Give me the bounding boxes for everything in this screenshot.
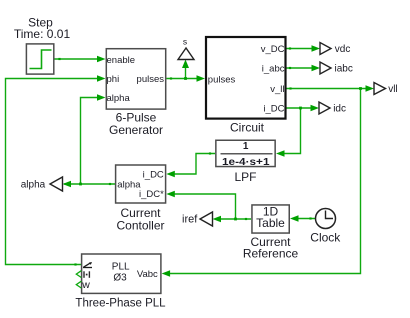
wire i_DC branch down to LPF input bbox=[283, 108, 301, 154]
outport tag iabc triangle bbox=[320, 62, 331, 74]
svg-text:v_ll: v_ll bbox=[270, 84, 284, 95]
waypoint dot on pulses wire bbox=[170, 77, 172, 79]
svg-text:s: s bbox=[183, 36, 187, 46]
arrowhead into goto tag s bbox=[182, 60, 189, 69]
svg-text:1: 1 bbox=[243, 141, 249, 152]
wire pulses to Circuit bbox=[167, 78, 199, 80]
svg-text:pulses: pulses bbox=[208, 74, 236, 85]
block Step bbox=[26, 44, 53, 74]
waypoint dot on controller alpha wire bbox=[109, 183, 111, 185]
waypoint dot on LPF output wire bbox=[209, 152, 211, 154]
svg-text:alpha: alpha bbox=[21, 180, 46, 191]
junction node alpha bbox=[79, 183, 82, 186]
wire v_ll to vll outport bbox=[287, 88, 368, 90]
svg-text:enable: enable bbox=[107, 55, 136, 66]
svg-text:Table: Table bbox=[256, 216, 285, 230]
svg-text:Three-Phase PLL: Three-Phase PLL bbox=[75, 297, 166, 309]
waypoint dot on iref wire bbox=[245, 218, 247, 220]
arrowhead into alpha input bbox=[97, 94, 106, 100]
svg-text:alpha: alpha bbox=[117, 179, 141, 190]
svg-text:iref: iref bbox=[182, 214, 198, 226]
svg-text:Generator: Generator bbox=[109, 123, 163, 137]
waypoint dot on clock wire bbox=[309, 217, 311, 219]
waypoint dot on enable wire bbox=[58, 58, 60, 60]
svg-text:v_DC: v_DC bbox=[261, 44, 285, 55]
arrowhead into 1D Table input bbox=[290, 215, 299, 221]
outport tag iref triangle bbox=[200, 212, 213, 226]
svg-text:Vabc: Vabc bbox=[137, 269, 158, 280]
svg-text:i_DC: i_DC bbox=[143, 169, 164, 180]
step waveform symbol bbox=[30, 50, 52, 69]
wire i_DC to idc outport bbox=[287, 107, 313, 109]
arrowhead into iref tag bbox=[213, 216, 222, 222]
svg-text:iabc: iabc bbox=[335, 64, 353, 75]
open output chevron port 2 bbox=[76, 271, 81, 278]
wire branch up to goto tag s bbox=[185, 64, 187, 79]
wire Clock to 1D Table bbox=[297, 218, 316, 220]
svg-text:Time: 0.01: Time: 0.01 bbox=[14, 27, 71, 41]
junction node iref bbox=[234, 218, 237, 221]
svg-text:i_abc: i_abc bbox=[262, 63, 285, 74]
wire branch up to controller i_DC* input bbox=[173, 194, 236, 219]
block 1D Table bbox=[252, 205, 289, 233]
block Current Contoller bbox=[116, 165, 166, 203]
wire alpha net horizontal bbox=[64, 183, 115, 185]
magnitude output symbol |.| bbox=[83, 271, 85, 278]
outport tag vll triangle bbox=[374, 83, 386, 95]
wire v_ll branch down and left to PLL Vabc bbox=[169, 89, 361, 274]
svg-text:Ø3: Ø3 bbox=[113, 272, 127, 283]
arrowhead into LPF input bbox=[276, 150, 285, 156]
arrowhead into idc outport bbox=[311, 105, 320, 111]
goto tag s triangle bbox=[178, 48, 194, 60]
arrowhead into i_DC input bbox=[166, 171, 175, 177]
waypoint dot on iabc wire bbox=[289, 67, 291, 69]
arrowhead into vll outport bbox=[366, 85, 375, 91]
arrowhead into enable input bbox=[97, 56, 106, 62]
wire i_abc to iabc outport bbox=[287, 67, 314, 69]
arrowhead into iabc outport bbox=[312, 65, 321, 71]
arrowhead into vdc outport bbox=[312, 45, 321, 51]
outport tag vdc triangle bbox=[320, 43, 331, 55]
arrowhead pulses into Circuit bbox=[197, 75, 206, 81]
wire Step to enable bbox=[55, 58, 99, 60]
waypoint dot on PLL output wire bbox=[74, 263, 76, 265]
svg-text:Reference: Reference bbox=[243, 246, 299, 260]
svg-text:Circuit: Circuit bbox=[230, 121, 265, 135]
svg-text:PLL: PLL bbox=[112, 262, 130, 273]
svg-text:phi: phi bbox=[107, 74, 120, 85]
svg-text:pulses: pulses bbox=[137, 74, 165, 85]
arrowhead into phi input bbox=[97, 75, 106, 81]
junction node vll bbox=[359, 87, 362, 90]
block Clock circle bbox=[316, 209, 336, 229]
block 6-Pulse Generator bbox=[106, 49, 165, 109]
svg-text:1e-4·s+1: 1e-4·s+1 bbox=[222, 157, 270, 168]
wire 1D Table output to iref tag bbox=[220, 218, 251, 220]
arrowhead into Vabc input bbox=[162, 270, 171, 276]
svg-text:Clock: Clock bbox=[310, 230, 341, 244]
svg-text:w: w bbox=[81, 279, 90, 291]
svg-text:i_DC: i_DC bbox=[263, 103, 284, 114]
outport tag alpha triangle bbox=[50, 177, 63, 191]
wire v_DC to vdc outport bbox=[287, 48, 314, 50]
junction node pulses bbox=[184, 77, 187, 80]
wire phi feedback (PLL phase output to 6-Pulse Generator phi) bbox=[6, 79, 99, 265]
fraction bar bbox=[221, 153, 273, 155]
arrowhead into i_DC* input bbox=[166, 191, 175, 197]
wire alpha net branch up to alpha input bbox=[81, 98, 99, 185]
svg-text:idc: idc bbox=[333, 104, 346, 115]
clock hands bbox=[326, 211, 334, 219]
svg-text:Contoller: Contoller bbox=[116, 218, 164, 232]
svg-text:vdc: vdc bbox=[335, 44, 351, 55]
svg-text:LPF: LPF bbox=[234, 170, 256, 184]
phase angle output symbol bbox=[83, 267, 92, 269]
svg-text:i_DC*: i_DC* bbox=[139, 189, 164, 200]
arrowhead into alpha tag bbox=[63, 181, 72, 187]
svg-text:vll: vll bbox=[388, 84, 397, 95]
svg-text:alpha: alpha bbox=[107, 93, 131, 104]
junction node idc bbox=[299, 107, 302, 110]
block Three-Phase PLL bbox=[82, 254, 161, 293]
block LPF transfer function bbox=[216, 140, 275, 166]
open output chevron port 3 bbox=[76, 281, 81, 288]
block Circuit bbox=[206, 37, 286, 119]
outport tag idc triangle bbox=[319, 102, 330, 114]
wire LPF output to controller i_DC input bbox=[173, 154, 215, 175]
waypoint dot on vdc wire bbox=[289, 47, 291, 49]
waypoint dot on vll wire bbox=[289, 87, 291, 89]
